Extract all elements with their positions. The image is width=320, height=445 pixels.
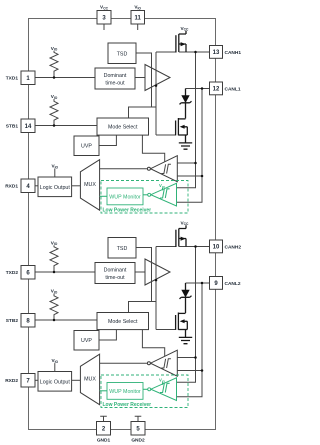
svg-text:CANH2: CANH2: [225, 245, 242, 251]
svg-text:CANH1: CANH1: [225, 50, 242, 56]
svg-text:VCC: VCC: [100, 5, 109, 11]
svg-text:RXD1: RXD1: [5, 184, 18, 190]
svg-text:GND1: GND1: [97, 438, 111, 444]
svg-text:STB2: STB2: [6, 318, 19, 324]
svg-text:CANL2: CANL2: [225, 281, 241, 287]
svg-text:13: 13: [213, 50, 220, 56]
svg-text:14: 14: [25, 124, 32, 130]
svg-text:CANL1: CANL1: [225, 87, 241, 93]
svg-text:12: 12: [213, 87, 220, 93]
svg-text:TXD1: TXD1: [6, 76, 19, 82]
svg-text:RXD2: RXD2: [5, 378, 18, 384]
svg-text:TXD2: TXD2: [6, 270, 19, 276]
svg-text:10: 10: [213, 245, 220, 251]
svg-text:VIO: VIO: [134, 5, 141, 11]
svg-text:STB1: STB1: [6, 124, 19, 130]
svg-text:11: 11: [135, 16, 142, 22]
svg-text:GND2: GND2: [131, 438, 145, 444]
